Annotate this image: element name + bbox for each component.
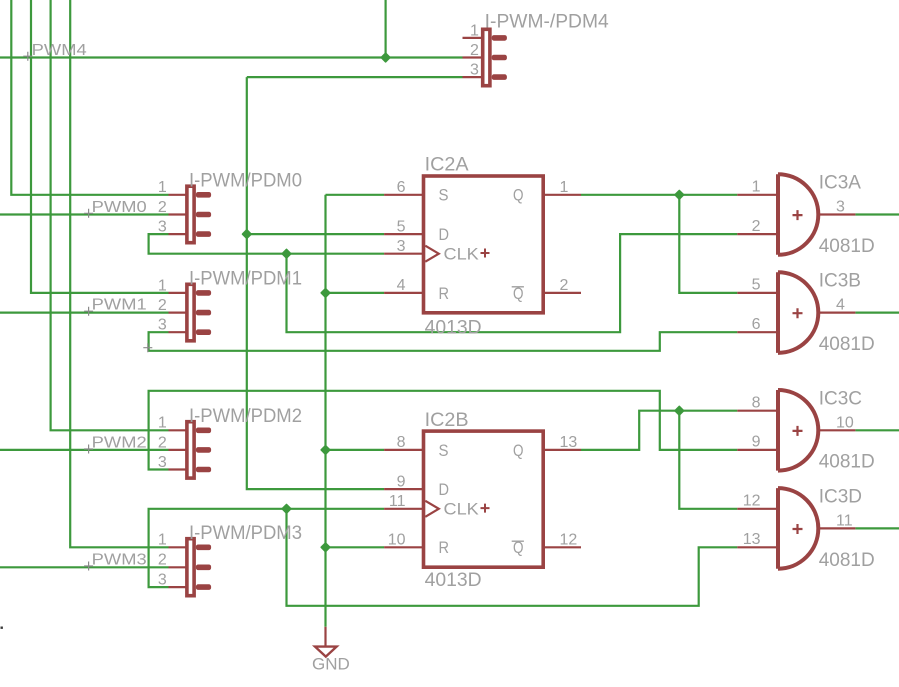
svg-text:10: 10: [388, 532, 406, 549]
svg-text:R: R: [439, 284, 450, 303]
svg-text:PWM1: PWM1: [92, 297, 147, 314]
svg-text:2: 2: [158, 199, 167, 216]
svg-text:PWM0: PWM0: [92, 199, 147, 216]
svg-text:11: 11: [389, 493, 406, 510]
svg-text:GND: GND: [312, 655, 350, 674]
svg-text:PWM4: PWM4: [32, 42, 87, 59]
svg-text:D: D: [439, 480, 450, 499]
svg-text:I-PWM-/PDM4: I-PWM-/PDM4: [485, 12, 609, 33]
svg-text:9: 9: [397, 473, 406, 490]
svg-text:6: 6: [397, 179, 406, 196]
svg-text:PWM3: PWM3: [92, 552, 147, 569]
svg-text:Q: Q: [513, 186, 524, 205]
svg-text:2: 2: [470, 42, 479, 59]
svg-text:IC3A: IC3A: [819, 173, 862, 194]
svg-text:D: D: [439, 225, 450, 244]
svg-text:1: 1: [158, 179, 167, 196]
svg-text:6: 6: [752, 316, 761, 333]
svg-text:I-PWM/PDM0: I-PWM/PDM0: [189, 170, 302, 191]
svg-text:12: 12: [743, 493, 761, 510]
svg-text:13: 13: [560, 434, 578, 451]
svg-text:3: 3: [470, 62, 479, 79]
svg-text:4: 4: [836, 297, 845, 314]
svg-text:5: 5: [397, 218, 406, 235]
svg-text:2: 2: [158, 434, 167, 451]
svg-text:1: 1: [560, 179, 569, 196]
svg-text:Q: Q: [513, 441, 524, 460]
svg-text:S: S: [439, 441, 449, 460]
svg-text:I-PWM/PDM3: I-PWM/PDM3: [189, 523, 302, 544]
svg-text:10: 10: [836, 414, 854, 431]
svg-text:4081D: 4081D: [819, 334, 875, 355]
svg-text:2: 2: [560, 277, 569, 294]
svg-text:1: 1: [470, 22, 479, 39]
svg-text:13: 13: [743, 531, 761, 548]
svg-text:4013D: 4013D: [425, 317, 482, 338]
svg-text:3: 3: [158, 454, 167, 471]
svg-text:R: R: [439, 538, 450, 557]
svg-text:4081D: 4081D: [819, 550, 875, 571]
svg-text:IC3B: IC3B: [819, 271, 861, 292]
svg-text:2: 2: [752, 218, 761, 235]
svg-text:1: 1: [158, 532, 167, 549]
svg-text:12: 12: [560, 532, 578, 549]
svg-text:3: 3: [836, 199, 845, 216]
svg-text:3: 3: [158, 219, 167, 236]
svg-text:8: 8: [397, 434, 406, 451]
svg-text:4081D: 4081D: [819, 236, 875, 257]
svg-text:5: 5: [752, 277, 761, 294]
svg-text:IC2A: IC2A: [425, 155, 469, 176]
svg-text:CLK: CLK: [444, 500, 480, 519]
svg-text:IC2B: IC2B: [425, 410, 469, 431]
svg-text:1: 1: [158, 277, 167, 294]
svg-text:CLK: CLK: [444, 245, 480, 264]
svg-text:9: 9: [752, 434, 761, 451]
svg-text:IC3C: IC3C: [819, 388, 862, 409]
svg-text:4013D: 4013D: [425, 570, 482, 591]
svg-text:4081D: 4081D: [819, 452, 875, 473]
svg-text:I-PWM/PDM1: I-PWM/PDM1: [189, 269, 302, 290]
svg-text:11: 11: [836, 512, 853, 529]
svg-text:2: 2: [158, 552, 167, 569]
svg-text:3: 3: [158, 572, 167, 589]
svg-text:8: 8: [752, 395, 761, 412]
svg-text:S: S: [439, 186, 449, 205]
svg-text:4: 4: [397, 277, 406, 294]
svg-text:3: 3: [158, 317, 167, 334]
svg-text:2: 2: [158, 297, 167, 314]
svg-text:1: 1: [752, 179, 761, 196]
svg-text:IC3D: IC3D: [819, 487, 862, 508]
svg-text:1: 1: [158, 415, 167, 432]
svg-text:3: 3: [397, 238, 406, 255]
svg-text:PWM2: PWM2: [92, 435, 147, 452]
svg-text:I-PWM/PDM2: I-PWM/PDM2: [189, 406, 302, 427]
